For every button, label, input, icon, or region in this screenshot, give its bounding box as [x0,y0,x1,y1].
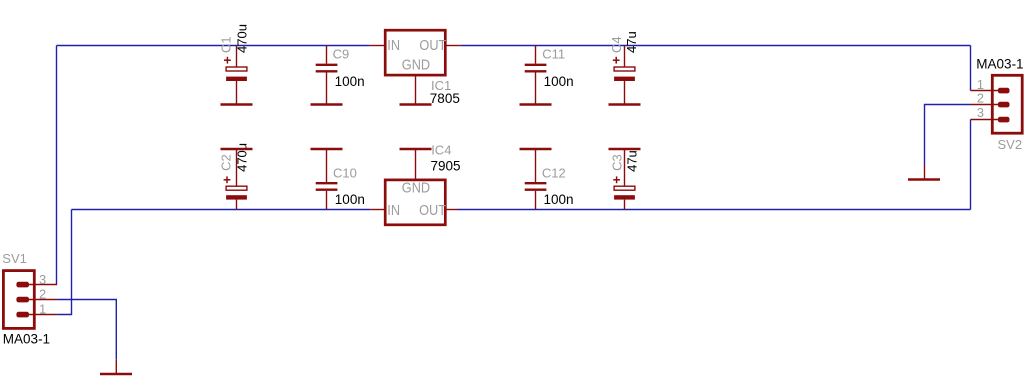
pin label IN (IC4) [387,202,400,218]
ground symbol below SV1 pin 2 [100,359,132,374]
svg-text:3: 3 [39,272,46,287]
svg-text:3: 3 [977,105,984,120]
svg-text:470u: 470u [235,24,250,53]
ground above C12 [520,148,552,151]
svg-text:OUT: OUT [419,202,447,218]
pin 3 of SV2 [971,117,1010,123]
connector SV1 box (MA03-1, bottom left) [3,271,34,329]
wire GND net: SV2 pin 2 to ground symbol (L-shaped) [925,105,971,166]
ground above C2 [221,148,253,151]
pin 1 of SV1 [16,312,57,318]
ground symbol below SV2 pin 2 wire [908,165,940,180]
label C2 value 470u [235,143,250,172]
wire -5V net: right vertical from SV2 pin 3 down to bottom rail [970,120,972,210]
label C12 name [542,166,566,181]
svg-text:C9: C9 [333,47,350,62]
pin IN of IC1 [370,45,384,47]
svg-text:GND: GND [402,57,430,73]
svg-text:2: 2 [39,286,46,301]
label SV2 value MA03-1 [976,56,1023,71]
svg-text:C10: C10 [333,166,357,181]
pin number 2 (SV1) [39,286,46,301]
pin number 2 (SV2) [977,91,984,106]
svg-text:MA03-1: MA03-1 [976,56,1023,71]
ground under C4 [609,103,641,106]
wire +5V net: left vertical drop to SV1 pin 3 [56,46,58,285]
pin GND of IC1 [415,76,417,105]
label IC1 name [431,78,451,93]
wire +5V net: right vertical drop to SV2 pin 1 [970,46,972,91]
pin label IN (IC1) [387,37,400,53]
pin 2 of SV1 [16,297,57,303]
wire -5V net: bottom rail left segment [72,209,371,211]
wire -5V net: SV1 pin 1 to bottom rail (L-shaped) [57,210,71,315]
wire +5V net: top rail right segment (IC1 OUT to SV2 pin 1) [460,45,970,47]
label C4 value 47u [624,31,639,53]
label C4 name [609,36,624,53]
wire +5V net: top rail left segment [57,45,370,47]
label C9 name [333,47,350,62]
svg-text:7805: 7805 [430,91,460,106]
pin OUT of IC4 [445,209,457,211]
label IC4 name [431,142,451,157]
svg-text:7905: 7905 [431,159,461,174]
capacitor C11 (100n, top row) [525,46,547,105]
svg-text:47u: 47u [624,31,639,53]
label C1 value 470u [235,24,250,53]
label C3 value 47u [624,150,639,172]
svg-text:MA03-1: MA03-1 [3,332,50,347]
ground under C9 [311,103,343,106]
label IC4 value 7905 [431,159,461,174]
connector SV2 box (MA03-1, right) [992,75,1022,133]
label C10 value 100n [335,192,365,207]
ground above C3 [609,148,641,151]
wire GND net: SV1 pin 2 to ground symbol (L-shaped) [57,300,116,360]
pin label GND (IC4) [402,180,430,196]
label C2 name [218,154,233,171]
capacitor C3 (47u electrolytic, bottom row) [613,149,635,210]
ground under C11 [520,103,552,106]
ground under IC1 [400,103,432,106]
label C11 value 100n [544,74,574,89]
capacitor C4 (47u electrolytic, top row) [613,46,635,105]
svg-text:2: 2 [977,91,984,106]
svg-text:GND: GND [402,180,430,196]
svg-text:100n: 100n [335,192,365,207]
op-amp-style regulator IC1 box (7805) [385,30,445,75]
svg-text:47u: 47u [624,150,639,172]
capacitor C2 (470u electrolytic, bottom row) [224,149,247,210]
pin OUT of IC1 [445,45,460,47]
svg-text:C1: C1 [219,36,234,53]
capacitor C1 (470u electrolytic, top row) [224,46,247,105]
pin GND of IC4 [415,149,417,181]
label C3 name [609,154,624,171]
svg-text:SV1: SV1 [2,251,27,266]
svg-text:IC4: IC4 [431,142,451,157]
svg-text:1: 1 [39,301,46,316]
label SV1 name [2,251,27,266]
pin number 1 (SV1) [39,301,46,316]
regulator IC4 box (7905) [385,180,445,225]
capacitor C10 (100n, bottom row) [316,149,338,210]
label C10 name [333,166,357,181]
svg-text:C11: C11 [542,47,565,62]
svg-text:100n: 100n [335,74,365,89]
label C11 name [542,47,565,62]
pin label GND (IC1) [402,57,430,73]
ground above C10 [311,148,343,151]
svg-text:C3: C3 [609,154,624,171]
pin label OUT (IC1) [419,37,447,53]
label SV1 value MA03-1 [3,332,50,347]
pin IN of IC4 [370,209,384,211]
pin 2 of SV2 [971,102,1010,108]
label C1 name [219,36,234,53]
ground above IC4 [400,148,432,151]
svg-text:100n: 100n [544,192,574,207]
svg-text:OUT: OUT [419,37,447,53]
pin label OUT (IC4) [419,202,447,218]
capacitor C12 (100n, bottom row) [525,149,547,210]
capacitor C9 (100n, top row) [316,46,338,105]
label SV2 name [998,137,1023,152]
label IC1 value 7805 [430,91,460,106]
svg-text:C12: C12 [542,166,566,181]
svg-text:470u: 470u [235,143,250,172]
svg-text:SV2: SV2 [998,137,1023,152]
ground under C1 [221,103,253,106]
svg-text:100n: 100n [544,74,574,89]
svg-text:C2: C2 [218,154,233,171]
svg-text:IN: IN [387,202,400,218]
pin number 3 (SV1) [39,272,46,287]
wire -5V net: bottom rail right segment (IC4 OUT to SV2 pin 3) [458,209,971,211]
pin 1 of SV2 [971,88,1010,94]
label C12 value 100n [544,192,574,207]
svg-text:C4: C4 [609,36,624,53]
svg-text:IN: IN [387,37,400,53]
label C9 value 100n [335,74,365,89]
pin 3 of SV1 [16,282,57,288]
pin number 3 (SV2) [977,105,984,120]
pin number 1 (SV2) [977,77,984,92]
